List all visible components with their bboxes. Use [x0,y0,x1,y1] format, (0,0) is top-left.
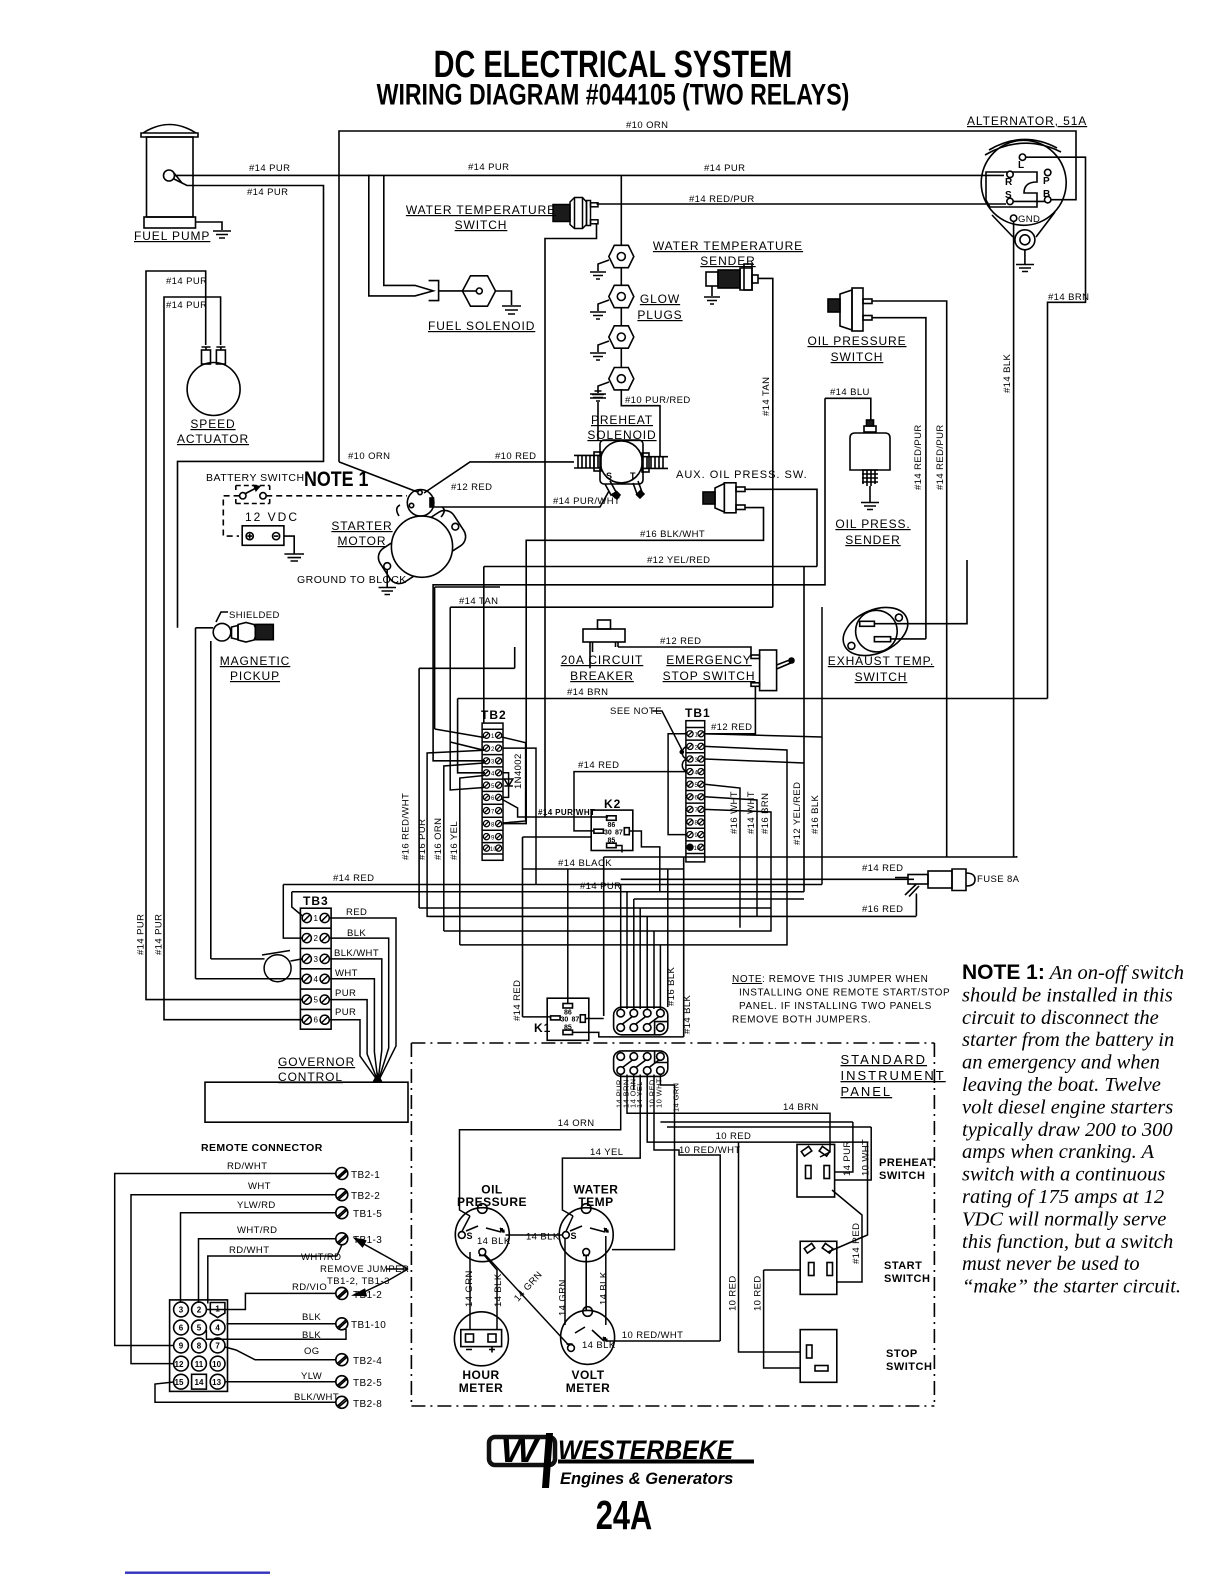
svg-text:14 ORN: 14 ORN [558,1118,595,1129]
wire exhaust top to vertical [874,560,967,624]
TB2 left wires and verticals [427,607,484,945]
gauge interconnect wires [462,1216,606,1346]
label #16 RED/WHT (vertical) [401,793,412,860]
svg-text:2: 2 [197,1306,202,1315]
label #14 PUR/WHT [553,496,620,507]
svg-text:BLK: BLK [302,1330,321,1341]
TB2 screws and numbers [483,732,501,851]
label #14 BLU [830,387,870,398]
wire TB3-1 feed [292,892,303,916]
label 20A CIRCUIT BREAKER [561,653,644,683]
label K1 [534,1021,551,1035]
label #16 PUR (vertical) [417,819,428,860]
svg-text:SWITCH: SWITCH [879,1170,925,1182]
wire exhaust bottom from oil switch [891,638,926,640]
label #14 BRN [567,687,608,698]
svg-text:START: START [884,1260,922,1272]
K2 pin labels [604,822,623,845]
svg-text:14 GRN: 14 GRN [558,1279,569,1316]
svg-text:starter from the battery in: starter from the battery in [962,1029,1174,1051]
svg-text:OG: OG [304,1346,320,1357]
svg-text:AUX. OIL PRESS. SW.: AUX. OIL PRESS. SW. [676,469,808,481]
label TB3 [303,894,329,908]
svg-text:#14 RED: #14 RED [851,1223,862,1264]
clamp circle TB3-3 [211,951,302,982]
label #14 TAN (vertical) [761,377,772,416]
diode 1N4002 [503,773,513,798]
wire #12 RED breaker to stop switch [618,647,751,657]
svg-text:85: 85 [608,838,616,845]
svg-text:#16 WHT: #16 WHT [729,791,740,834]
svg-text:RD/WHT: RD/WHT [227,1161,267,1172]
svg-text:RD/VIO: RD/VIO [292,1282,327,1293]
label NOTE 1 (bold) [304,468,369,492]
label 14 BLK (oil gauge) [477,1236,511,1247]
label #14 PUR/WHT (K2) [538,808,595,817]
label #14 RED (panel) [851,1223,862,1264]
label #14 RED/PUR (vertical 1) [913,424,924,490]
svg-text:STARTER: STARTER [331,519,392,533]
svg-text:this function, but a switch: this function, but a switch [962,1231,1173,1253]
svg-text:#14 PUR: #14 PUR [154,914,165,955]
svg-text:#10 PUR/RED: #10 PUR/RED [625,395,691,406]
label S (water gauge) [571,1231,577,1241]
svg-text:#14 PUR: #14 PUR [580,881,621,892]
svg-text:6: 6 [179,1324,184,1333]
svg-text:#16 BLK/WHT: #16 BLK/WHT [640,529,705,540]
svg-text:10: 10 [212,1360,221,1369]
wire #10 ORN top bus [339,131,1076,462]
svg-text:#12 RED: #12 RED [451,482,492,493]
label #16 BRN (vertical) [760,793,771,834]
svg-text:T: T [630,471,636,481]
svg-text:#14 BLK: #14 BLK [1002,353,1013,393]
svg-text:PRESSURE: PRESSURE [457,1195,527,1209]
svg-text:SWITCH: SWITCH [855,670,908,684]
volt meter G4 [561,1307,615,1365]
label #12 YEL/RED (vertical) [792,782,803,845]
svg-text:PREHEAT: PREHEAT [879,1157,934,1169]
label OIL PRESSURE [457,1183,527,1210]
svg-text:6: 6 [491,796,495,802]
svg-text:#14 RED: #14 RED [578,760,619,771]
svg-text:7: 7 [491,809,495,815]
svg-text:METER: METER [566,1381,611,1395]
label #10 RED [495,451,536,462]
label SEE NOTE with leader [610,706,662,717]
label #12 RED (TB1) [711,722,752,733]
wire TB1 right verticals [705,607,822,928]
svg-text:85: 85 [564,1025,572,1032]
label 14 BRN (panel) [783,1102,819,1113]
svg-text:#14 PUR/WHT: #14 PUR/WHT [553,496,620,507]
svg-text:10 WHT: 10 WHT [860,1139,871,1176]
label #16 BLK/WHT [640,529,705,540]
svg-text:30: 30 [561,1017,569,1024]
wire starter aux vertical pair [419,587,590,908]
label EXHAUST TEMP. SWITCH [828,654,934,684]
wire K1 86 up [567,869,569,1004]
svg-text:2: 2 [491,747,495,753]
svg-text:S: S [606,471,612,481]
label #14 BLK (connector) [682,994,693,1034]
label 14 GRN (diag) [512,1269,545,1304]
svg-text:PLUGS: PLUGS [637,308,682,322]
svg-text:#14 RED: #14 RED [333,873,374,884]
panel wire 14 GRN vertical [612,1075,675,1250]
fuel solenoid FS1 [429,276,521,314]
svg-text:11: 11 [195,1360,204,1369]
TB1 jumper arcs [682,746,686,771]
svg-text:STANDARD: STANDARD [841,1052,928,1067]
svg-text:FUEL SOLENOID: FUEL SOLENOID [428,319,535,333]
svg-text:14 GRN: 14 GRN [464,1270,475,1307]
svg-text:#14 PUR: #14 PUR [704,163,745,174]
terminal block TB2 [482,723,503,860]
svg-text:WHT: WHT [248,1181,271,1192]
panel wire 10 RED second [764,1270,801,1368]
wire K2 85 [523,837,623,853]
panel wire 10 RED/WHT [654,1075,720,1342]
svg-text:12: 12 [175,1360,184,1369]
label #14 RED (K1 vertical) [512,980,523,1021]
svg-text:HOUR: HOUR [462,1368,499,1382]
wire aux sw bottom pin / #16 BLK/WHT [503,508,764,824]
label STOP SWITCH [886,1348,932,1373]
label OIL PRESSURE SWITCH [807,334,906,364]
svg-text:#14 RED: #14 RED [862,863,903,874]
svg-text:#12 RED: #12 RED [711,722,752,733]
label OIL PRESS. SENDER [835,517,910,547]
label 10 WHT (preheat) [860,1139,871,1176]
label TB1 [685,706,711,720]
svg-text:REMOVE BOTH JUMPERS.: REMOVE BOTH JUMPERS. [732,1015,871,1026]
label PUR (TB3-6) [335,1007,356,1018]
svg-text:#10 ORN: #10 ORN [626,120,668,131]
svg-text:INSTALLING ONE REMOTE START/ST: INSTALLING ONE REMOTE START/STOP [739,988,950,999]
wire #10 PUR/RED glow to preheat [621,389,660,457]
svg-text:2: 2 [314,934,319,943]
label BATTERY SWITCH [206,472,305,484]
svg-text:TB2-8: TB2-8 [353,1399,382,1410]
svg-text:TB2-5: TB2-5 [353,1378,382,1389]
label PREHEAT SOLENOID [587,413,656,442]
svg-text:TB1-5: TB1-5 [353,1209,382,1220]
wire #14 RED/PUR water temp switch to alternator S [597,203,1007,205]
label pin P [1043,176,1050,187]
label #14 PUR (right of center) [704,163,745,174]
svg-text:MAGNETIC: MAGNETIC [220,654,291,668]
oil pressure switch OPS1 [828,288,947,857]
svg-text:#14 TAN: #14 TAN [761,377,772,416]
svg-text:14 PUR: 14 PUR [842,1140,853,1176]
label #14 RED/PUR (vertical 2) [935,424,946,490]
svg-text:SWITCH: SWITCH [831,350,884,364]
svg-text:P: P [1043,176,1050,187]
svg-text:TB1: TB1 [685,706,711,720]
label 14 BLK (volt) [582,1340,616,1351]
TB1 screws and numbers [687,731,704,851]
label #16 BLK (vertical) [810,794,821,834]
wire water temp switch lower pin [545,223,597,817]
wire #14 BRN long horizontal [458,699,1048,773]
hour meter G3 [454,1312,508,1366]
label 1N4002 [513,753,524,789]
svg-text:#14 PUR/WHT: #14 PUR/WHT [538,808,595,817]
svg-text:1N4002: 1N4002 [513,753,524,789]
label pin S [1005,190,1012,201]
svg-text:BLK/WHT: BLK/WHT [294,1392,339,1403]
wire TB1-1 left jumper to TB1-9 [668,734,686,835]
svg-text:amps when cranking. A: amps when cranking. A [962,1141,1155,1163]
label #16 RED [862,904,903,915]
svg-text:NOTE 1: NOTE 1 [304,468,369,492]
svg-text:#16 RED/WHT: #16 RED/WHT [401,793,412,860]
label 10 RED (vertical 1) [728,1275,739,1311]
label S (oil gauge) [467,1231,473,1241]
oil pressure sender OPS3 [850,420,890,510]
wire aux sw top pin [745,489,817,566]
svg-text:EMERGENCY: EMERGENCY [666,653,751,667]
svg-text:K2: K2 [604,797,621,811]
label STARTER MOTOR [331,519,392,548]
wire #14 BLACK bus [523,837,684,1037]
svg-text:3: 3 [491,760,495,766]
fuse F1 8A [895,869,975,916]
label SPEED ACTUATOR [177,417,249,446]
svg-text:ALTERNATOR, 51A: ALTERNATOR, 51A [967,114,1087,128]
svg-text:8: 8 [491,822,495,828]
label REMOVE JUMPER TB1-2, TB1-3 with arrows [320,1264,409,1287]
wire #14 BLU bus [433,398,871,761]
svg-text:BLK/WHT: BLK/WHT [334,948,379,959]
svg-text:#14 PUR: #14 PUR [166,300,207,311]
label #14 BLK (vertical right) [1002,353,1013,393]
label #14 TAN [459,596,498,607]
label STANDARD INSTRUMENT PANEL [841,1052,946,1099]
svg-text:K1: K1 [534,1021,551,1035]
label HOUR METER [459,1368,504,1395]
label pin R [1005,177,1013,188]
label #14 RED (fuse) [862,863,903,874]
water temperature sender WTS2 [704,264,773,607]
svg-text:8: 8 [197,1342,202,1351]
wires 14 PUR / 10 WHT at preheat [660,1122,871,1180]
wire K1 87 up [585,1018,603,1020]
preheat switch S3 [797,1144,835,1197]
label 14 BLK (between gauges) [526,1232,560,1243]
label 14 GRN (v1) [464,1270,475,1307]
svg-text:STOP: STOP [886,1348,918,1360]
svg-text:4: 4 [491,772,495,778]
label 14 GRN (v3) [558,1279,569,1316]
TB3 screws and numbers [302,913,329,1024]
svg-text:10 WHT: 10 WHT [655,1078,664,1108]
label 12 VDC [245,510,299,524]
svg-text:SOLENOID: SOLENOID [587,428,656,442]
wire #16 RED [429,915,916,917]
svg-text:#14 RED/PUR: #14 RED/PUR [689,194,755,205]
wire #14 RED TB1-4 to K2 30 [574,772,686,831]
svg-text:R: R [1005,177,1013,188]
starter motor M1 [374,490,470,595]
svg-text:14 BLK: 14 BLK [599,1271,610,1305]
svg-text:B: B [1043,189,1050,200]
svg-text:TB2-1: TB2-1 [351,1170,380,1181]
svg-text:#14 BLU: #14 BLU [830,387,870,398]
preheat solenoid PS1 [574,391,668,499]
svg-text:4: 4 [314,975,319,984]
svg-text:GOVERNOR: GOVERNOR [278,1055,355,1069]
svg-text:circuit to disconnect the: circuit to disconnect the [962,1007,1159,1029]
label 14 ORN [558,1118,595,1129]
svg-text:“make” the starter circuit.: “make” the starter circuit. [962,1276,1181,1298]
svg-text:14 YEL: 14 YEL [590,1147,623,1158]
svg-text:MOTOR: MOTOR [338,534,387,548]
svg-text:#12 YEL/RED: #12 YEL/RED [792,782,803,845]
svg-text:NOTE 1: An on-off switch: NOTE 1: An on-off switch [962,961,1184,984]
svg-text:#14 WHT: #14 WHT [746,791,757,834]
label RED (TB3-1) [346,907,367,918]
label GND [1018,214,1040,225]
label FUEL SOLENOID [428,319,535,333]
label pin L [1018,160,1024,171]
NOTE remove jumper text [732,974,950,1026]
label MAGNETIC PICKUP [220,654,291,683]
svg-text:SWITCH: SWITCH [455,218,508,232]
bus horizontals above TB3 [283,885,822,945]
label #12 RED [660,636,701,647]
svg-text:#16 BLK: #16 BLK [666,966,677,1006]
label #14 RED (K2) [578,760,619,771]
wire K2 87 to bus [629,831,660,892]
alternator ALT1 [981,139,1066,271]
svg-text:TB1-2, TB1-3: TB1-2, TB1-3 [327,1276,390,1287]
svg-text:9: 9 [491,835,495,841]
svg-text:OIL PRESS.: OIL PRESS. [835,517,910,531]
label SHIELDED [229,610,280,621]
wire alternator L to #14 BRN [1026,157,1086,698]
governor control box [205,1082,408,1122]
svg-text:EXHAUST TEMP.: EXHAUST TEMP. [828,654,934,668]
svg-text:5: 5 [491,784,495,790]
remote connector J1 15-pin [170,1300,228,1392]
svg-text:#14 PUR: #14 PUR [136,914,147,955]
svg-text:5: 5 [314,996,319,1005]
label REMOTE CONNECTOR [201,1142,323,1154]
svg-text:#16 PUR: #16 PUR [417,819,428,860]
svg-text:SHIELDED: SHIELDED [229,610,280,621]
svg-text:#14 PUR: #14 PUR [166,276,207,287]
svg-text:TB1-10: TB1-10 [351,1320,386,1331]
svg-text:#16 YEL: #16 YEL [449,821,460,860]
aux oil pressure switch OPS2 [703,483,745,513]
label #14 PUR (pump wire 1) [249,163,290,174]
svg-text:#16 ORN: #16 ORN [433,818,444,860]
emergency stop switch S2 [751,650,794,691]
svg-text:15: 15 [175,1378,184,1387]
svg-text:WATER TEMPERATURE: WATER TEMPERATURE [653,239,803,253]
wire #14 BLK alternator ground vertical [1013,221,1015,857]
label pin B [1043,189,1050,200]
terminal block TB1 [686,721,705,862]
svg-text:#14 BLK: #14 BLK [682,994,693,1034]
svg-text:GROUND TO BLOCK: GROUND TO BLOCK [297,574,407,586]
K1 pin labels [561,1010,580,1032]
svg-text:BATTERY SWITCH: BATTERY SWITCH [206,472,305,484]
svg-text:S: S [467,1231,473,1241]
wire K1 85 to #14 BLK vertical [573,1032,684,1037]
exhaust temp switch ETS1 [836,598,916,665]
label #10 ORN (diag) [348,451,390,462]
label 14 BLK (v4) [599,1271,610,1305]
label #12 RED (starter) [451,482,492,493]
connector P1 engine side [614,1007,668,1035]
wire #14 RED to K1 30 [523,1016,551,1018]
glow plugs GP1-GP4 [590,175,634,401]
svg-text:#10 RED: #10 RED [495,451,536,462]
label PREHEAT SWITCH [879,1157,934,1182]
label EMERGENCY STOP SWITCH [663,653,756,683]
svg-text:10: 10 [694,846,701,852]
wire 10 RED/WHT volt meter [606,1340,720,1342]
svg-text:SENDER: SENDER [845,533,900,547]
svg-text:14 BLK: 14 BLK [493,1273,504,1307]
panel wire 10 RED [647,1075,867,1253]
svg-text:87: 87 [615,830,623,837]
remote screw terminals column [336,1168,348,1409]
wire TB3-2 feed [283,885,302,939]
svg-text:PUR: PUR [335,988,356,999]
svg-text:Engines & Generators: Engines & Generators [560,1470,733,1488]
wire #14 RED to fuse [621,878,895,880]
svg-text:#14 BRN: #14 BRN [1048,292,1089,303]
panel wire 14 YEL [562,1075,640,1217]
label 10 RED (panel top) [716,1131,752,1142]
dash-dot panel boundary top [411,1043,934,1406]
svg-text:OIL PRESSURE: OIL PRESSURE [807,334,906,348]
wire TB3-4 feed [196,978,303,980]
wire bundle verticals to connector P1 [621,869,804,1009]
svg-text:STOP SWITCH: STOP SWITCH [663,669,756,683]
svg-text:PREHEAT: PREHEAT [591,413,653,427]
svg-text:14: 14 [195,1378,204,1387]
label 14 YEL [590,1147,623,1158]
label #14 BRN (right) [1048,292,1089,303]
svg-text:S: S [571,1231,577,1241]
svg-text:10 RED/WHT: 10 RED/WHT [679,1145,741,1156]
label FUSE 8A [977,874,1020,885]
wire #12 RED stop switch to TB1-1 [705,686,756,734]
svg-text:6: 6 [314,1016,319,1025]
label #14 PUR (speed act 2) [166,300,207,311]
wire #12 YEL/RED [450,567,817,892]
label 10 RED/WHT (volt) [622,1330,684,1341]
fuel pump [141,125,231,239]
svg-text:#14 RED/PUR: #14 RED/PUR [935,424,946,490]
label T (preheat) [630,471,636,481]
svg-text:WHT/RD: WHT/RD [237,1225,277,1236]
svg-text:SENDER: SENDER [700,254,755,268]
connector P2 panel side [614,1051,668,1077]
wire long horizontal to fuse region y857 [604,856,1017,1016]
svg-text:switch with a continuous: switch with a continuous [962,1164,1165,1186]
svg-text:14 GRN: 14 GRN [671,1083,680,1113]
wire TB2-1 jumper to TB2-8 [502,737,526,823]
water temp gauge G2 [559,1204,613,1311]
wire #14 PUR main bus fuel pump to alternator R [174,174,1004,176]
svg-text:GND: GND [1018,214,1040,225]
